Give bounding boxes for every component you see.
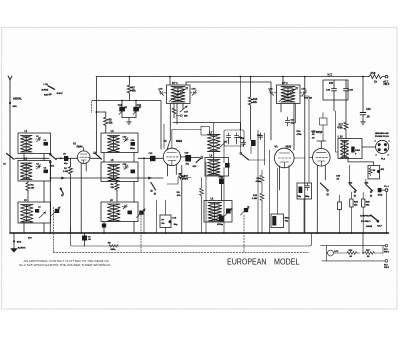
resistor R5 <box>109 245 118 247</box>
wire V2 top <box>172 130 201 149</box>
node wave o2 <box>50 94 51 95</box>
capacitor C24 trimmer <box>269 90 277 96</box>
node contact S13 <box>201 157 203 159</box>
switch S4 lever <box>61 189 64 195</box>
node PL3 terminal <box>385 260 388 263</box>
trimmer C16a <box>122 205 127 210</box>
capacitor C28 <box>332 80 337 100</box>
capacitor C10 <box>121 101 123 118</box>
svg-text:S2-P: S2-P <box>377 226 382 228</box>
svg-text:2.2M: 2.2M <box>252 198 257 200</box>
node HT+ terminal <box>385 75 388 78</box>
node contact S23b <box>354 195 356 197</box>
ground C10C11 <box>126 122 131 124</box>
resistor R26 <box>347 252 360 255</box>
svg-text:IFT 2: IFT 2 <box>282 82 288 85</box>
trimmer arrow C9 <box>52 207 61 216</box>
resistor R18 <box>369 75 385 79</box>
box C32 grid cap <box>320 118 328 125</box>
box jack R19 <box>368 165 380 179</box>
wire L6 bottom <box>104 222 134 234</box>
svg-text:250p: 250p <box>130 148 135 150</box>
coil L7 <box>208 135 221 152</box>
wire S23 down <box>340 192 364 233</box>
wire pot top <box>277 168 279 214</box>
coil L9 <box>208 203 222 222</box>
switch lever S23 <box>350 185 357 191</box>
wire line C to V3 grid <box>186 82 271 140</box>
node contact S20a <box>327 190 329 192</box>
wire IFT2 sec right <box>300 96 309 183</box>
wire AGC horizontal mid <box>173 122 241 124</box>
wire IFT2 feed <box>282 77 284 85</box>
svg-text:PIN 4: PIN 4 <box>384 83 390 86</box>
resistor R19 <box>369 167 372 176</box>
capacitor C4 <box>44 170 49 174</box>
node grid dot <box>60 157 62 159</box>
resistor R14 <box>260 170 264 188</box>
wire L2 to L3 stub <box>43 181 45 202</box>
coil L2 <box>21 163 33 180</box>
capacitor C9a <box>102 224 106 228</box>
svg-text:AERIAL: AERIAL <box>13 98 22 101</box>
lever earphone <box>371 215 378 221</box>
node dot AF box <box>169 220 172 223</box>
box osc pad <box>201 127 209 136</box>
wire L4 L5 stubs <box>104 153 134 163</box>
box volume pot <box>271 214 284 228</box>
svg-text:1M: 1M <box>31 187 34 189</box>
node mid dot <box>362 252 364 254</box>
ground EARTH <box>11 249 17 253</box>
capacitor C15v variable <box>139 211 143 215</box>
wire chassis rail <box>10 232 389 234</box>
resistor R13 <box>248 77 252 140</box>
wire V1 cathode down <box>84 233 86 246</box>
wire L5 L6 stub <box>133 182 135 203</box>
transformer L10 box <box>338 139 362 159</box>
resistor R1 <box>69 158 73 233</box>
node contact S16 <box>240 153 242 155</box>
capacitor C25 <box>225 163 230 168</box>
wire R2 down <box>27 192 29 202</box>
svg-text:6BE6: 6BE6 <box>176 140 183 143</box>
box L5 unit <box>101 162 138 182</box>
box L8 unit <box>205 158 229 177</box>
switch lever S20 <box>320 183 327 189</box>
svg-text:6BA6: 6BA6 <box>77 146 84 149</box>
wire x269 vertical <box>269 150 271 233</box>
capacitor C29 <box>344 80 349 100</box>
node dot IFT2 feed <box>282 76 284 78</box>
wire R4 down <box>116 191 118 202</box>
coil IFT2 <box>281 87 295 103</box>
wire C27 drop <box>221 176 223 201</box>
transformer IFT2 box <box>277 85 301 104</box>
wire x264 vertical <box>264 133 266 165</box>
wire IFT1 bottom legs <box>167 104 183 151</box>
trimmer C1 <box>36 137 42 142</box>
svg-text:PHONE PLUG: PHONE PLUG <box>375 136 389 138</box>
capacitor C31 <box>360 113 366 115</box>
trimmer arrow IFT2 <box>279 88 298 102</box>
node dot R13 <box>250 76 252 78</box>
transformer IFT1 box <box>167 85 191 104</box>
svg-text:BATT: BATT <box>44 94 50 97</box>
trimmer arrow C22v <box>241 207 250 216</box>
box tone network <box>297 183 312 199</box>
svg-text:560k: 560k <box>111 249 117 251</box>
switch lever S1a <box>7 154 15 160</box>
node earphone blob <box>377 220 380 223</box>
svg-text:6BQ5: 6BQ5 <box>316 131 323 134</box>
node contact S2 <box>94 152 96 154</box>
wire lamp links <box>327 246 348 261</box>
capacitor C16b black <box>251 140 256 146</box>
svg-text:MODEL: MODEL <box>274 258 300 267</box>
svg-text:S1-2,S25 WHICH EARTHS THE: S1-2,S25 WHICH EARTHS THE UNUSED TUNED W… <box>19 263 111 267</box>
wire V2 anode <box>181 156 200 159</box>
resistor R17 <box>344 122 348 139</box>
node contact S5b <box>154 193 156 195</box>
switch lever S13 <box>196 158 201 162</box>
trimmer arrow C15v <box>137 209 146 218</box>
node contact S24b <box>370 195 372 197</box>
capacitor C15b <box>241 140 245 146</box>
svg-text:470k: 470k <box>256 180 262 183</box>
node dot grid2 <box>143 157 145 159</box>
wire HT left drop <box>96 77 98 153</box>
wire x144 down <box>143 158 145 233</box>
svg-text:22k: 22k <box>253 101 258 104</box>
capacitor C5 <box>64 156 68 161</box>
wire grid2 line right <box>138 157 150 159</box>
capacitor C12 <box>150 156 156 161</box>
wire x164 vertical <box>163 124 165 149</box>
svg-text:BASE: BASE <box>366 225 372 228</box>
capacitor C11 <box>135 101 137 118</box>
switch wave lever <box>48 86 55 90</box>
resistor R6 below IFT1 <box>172 108 176 118</box>
connector PL2 circle <box>376 140 389 153</box>
wire x258 vertical <box>257 130 259 233</box>
box L2 unit <box>18 161 51 182</box>
wire gang dash C9 <box>53 207 55 252</box>
capacitor C17a <box>128 211 133 215</box>
wire grid line from switch <box>15 157 49 159</box>
svg-text:EARTH: EARTH <box>18 247 26 250</box>
node PL2 pin1 terminal <box>385 244 388 247</box>
svg-text:PL 1: PL 1 <box>384 186 389 188</box>
wire V4 grid link <box>309 156 313 158</box>
svg-text:H.T.: H.T. <box>328 72 333 76</box>
capacitor C29a padder <box>226 209 231 214</box>
svg-text:470p: 470p <box>378 194 383 197</box>
switch S5 mid <box>151 183 156 191</box>
svg-text:IFT 1: IFT 1 <box>172 82 178 85</box>
trimmer arrow C29a <box>225 209 233 217</box>
wire C29 drop to R17 <box>345 100 347 122</box>
svg-text:4700p: 4700p <box>217 223 224 226</box>
coil L10 <box>341 141 349 158</box>
node contact S4a <box>60 188 62 190</box>
wire L3 bottom stubs <box>24 223 44 233</box>
trimmer C3 <box>36 165 42 170</box>
wire lamp strip bottom <box>322 260 385 262</box>
resistor R2 below L2 <box>26 181 30 192</box>
antenna arrow <box>8 76 12 80</box>
node wave o1 <box>47 89 48 90</box>
svg-text:2.2M: 2.2M <box>63 171 68 173</box>
svg-text:27k: 27k <box>329 82 334 85</box>
svg-text:1000: 1000 <box>355 150 361 152</box>
svg-text:S.W-P: S.W-P <box>57 93 64 95</box>
wire L10 to PL2 <box>362 146 376 148</box>
wire R27 up <box>382 246 384 253</box>
wire C32 stub <box>322 113 324 142</box>
capacitor C23 osc <box>234 133 238 140</box>
ground C31 <box>360 122 365 124</box>
node PL1 terminal <box>385 189 388 192</box>
node dot x304 <box>304 76 306 78</box>
resistor R24 box <box>350 199 353 207</box>
wire IFT2 right drop <box>304 77 306 233</box>
wire osc top joins <box>214 140 237 160</box>
svg-text:R18: R18 <box>371 71 376 75</box>
wire osc cap drop <box>240 123 242 131</box>
svg-text:150p: 150p <box>305 196 310 198</box>
capacitor C7 <box>35 209 39 213</box>
node contact S1b <box>49 153 51 155</box>
svg-text:MR: MR <box>184 116 188 118</box>
tube V1 <box>77 151 90 164</box>
node strip top left <box>320 245 323 247</box>
node gram terminal <box>180 115 182 117</box>
wire earth drop <box>13 233 15 248</box>
coil IFT1 <box>171 87 185 103</box>
wire L1 to L2 stubs <box>24 154 44 161</box>
wire L4 feed <box>97 112 106 133</box>
wire det out <box>249 159 265 161</box>
wire C10 C11 join <box>122 118 136 122</box>
capacitor C19 <box>185 155 191 162</box>
wire HT drop C31 <box>362 77 364 122</box>
capacitor C9 variable <box>55 209 59 213</box>
node dot L4 feed <box>96 111 98 113</box>
wire V2 pins <box>168 164 177 176</box>
wire C28 drop <box>333 100 335 111</box>
wire AGC line <box>51 177 164 179</box>
switch lever S1b <box>50 155 56 160</box>
wire L1 return <box>49 163 51 233</box>
node contact S5a <box>151 190 153 192</box>
capacitor C21 <box>285 117 289 126</box>
wire C16b stub <box>250 146 252 153</box>
capacitor C18c <box>258 133 262 139</box>
node SK1 <box>9 102 11 104</box>
wire osc column verticals <box>206 140 224 233</box>
coil L3 <box>21 205 34 223</box>
capacitor C22 osc <box>226 133 230 140</box>
tube V2 <box>163 148 180 165</box>
box L6 unit <box>101 202 138 222</box>
node rail dots <box>49 232 387 234</box>
node contact S23a <box>354 191 356 193</box>
box L9 unit <box>204 201 232 223</box>
svg-text:470k: 470k <box>297 133 303 136</box>
capacitor C22v variable <box>244 208 248 212</box>
wire return bus <box>70 227 311 246</box>
wire V4 top <box>317 141 326 149</box>
svg-text:PIN 1: PIN 1 <box>384 252 390 254</box>
box AF unit <box>160 215 171 228</box>
svg-text:EUROPEAN: EUROPEAN <box>227 258 267 267</box>
wire x97 down from screen <box>96 152 98 154</box>
svg-text:C31: C31 <box>366 108 371 111</box>
svg-text:L 10: L 10 <box>338 136 343 139</box>
pin dots PL2 <box>378 143 381 146</box>
coil L6 <box>108 204 121 221</box>
box L3 unit <box>18 202 51 223</box>
resistor R7 <box>127 77 131 101</box>
coil L5 <box>108 165 120 182</box>
wire V1 pins <box>81 163 86 233</box>
coil L4 <box>108 136 120 153</box>
capacitor C30 pot <box>272 216 276 226</box>
wire V3 anode link <box>294 157 305 159</box>
trimmer arrow IFT1 <box>169 88 188 102</box>
node contact S1c <box>49 161 51 163</box>
wire V1 anode to L4 <box>90 157 101 159</box>
box L1 unit <box>18 133 51 154</box>
resistor R4 below L5 <box>115 182 119 192</box>
capacitor C28a 4700p <box>219 216 224 222</box>
trimmer C15 <box>123 165 128 170</box>
capacitor C41 <box>378 188 382 192</box>
node dot railB C11 <box>135 100 137 102</box>
capacitor C34 <box>305 183 309 190</box>
arrowhead AGC 2 <box>149 177 152 179</box>
svg-text:HEARING AID: HEARING AID <box>375 132 389 135</box>
svg-text:6BJ6: 6BJ6 <box>286 145 292 148</box>
coil L8 <box>208 160 221 176</box>
node dot AVC rail <box>240 76 242 78</box>
resistor R8 <box>167 176 191 184</box>
trimmer arrow C17 <box>180 106 187 112</box>
arrowhead AGC 1 <box>62 177 65 179</box>
capacitor C27 300p <box>219 179 224 185</box>
node dot IFT1 feed <box>169 76 171 78</box>
capacitor C2 <box>44 142 49 146</box>
wire lamp feed <box>362 233 364 253</box>
svg-text:470k: 470k <box>337 127 343 130</box>
svg-text:PIN 3: PIN 3 <box>384 267 390 269</box>
box L4 unit <box>101 133 138 153</box>
trimmer arrow C8 <box>39 212 46 218</box>
wire IFT1 sec down <box>176 104 178 125</box>
capacitor C16 trimmer <box>159 90 167 96</box>
wire C12 to V2 <box>156 157 164 159</box>
svg-text:EARPHON: EARPHON <box>360 214 371 217</box>
capacitor C6 <box>82 236 87 241</box>
wire L7 top <box>213 123 215 135</box>
trimmer C13 <box>123 138 128 143</box>
coil L1 <box>21 136 33 153</box>
wire osc AVC vertical <box>240 77 242 153</box>
resistor R25 box <box>362 199 365 207</box>
svg-text:C10: C10 <box>118 104 123 107</box>
resistor R27 <box>365 252 384 255</box>
wire HT rail top <box>96 76 369 78</box>
wire screen rail B <box>92 101 161 149</box>
wire gang dash C22 <box>243 215 245 252</box>
node contact S4b <box>62 195 64 197</box>
node SK2 <box>13 240 15 242</box>
tube V4 <box>313 149 331 167</box>
wire x156 vertical <box>156 200 158 233</box>
trimmer C20 <box>220 141 227 147</box>
node contact S20b <box>327 194 329 196</box>
svg-text:+H.T.: +H.T. <box>383 81 389 83</box>
box feedback network top right <box>323 80 348 100</box>
resistor R3 <box>104 117 108 126</box>
wire aerial line <box>9 80 11 233</box>
trimmer arrow C11 <box>133 107 141 115</box>
wire IFT2 right leg <box>294 104 296 123</box>
svg-text:68k: 68k <box>132 90 137 93</box>
resistor R11 <box>200 178 204 234</box>
resistor R10 <box>180 166 184 234</box>
node dot railB C10 <box>121 100 123 102</box>
wire lamp strip top <box>322 245 385 247</box>
capacitor C18 trimmer <box>190 90 197 96</box>
wire IFT1 feed <box>169 77 171 85</box>
trimmer arrow C10 <box>119 107 127 115</box>
wire gang dash C15 <box>140 212 142 252</box>
box osc trim unit <box>224 130 244 146</box>
wire S23 S24 up <box>350 165 366 185</box>
capacitor C40 <box>351 147 354 153</box>
wire tone box bottom <box>303 199 305 233</box>
tube V3 <box>275 148 295 168</box>
node dot x363 <box>362 76 364 78</box>
node dot R7 top <box>129 76 131 78</box>
capacitor C14 <box>131 142 136 146</box>
wire x335 vertical <box>336 111 339 152</box>
node contact S24a <box>370 191 372 193</box>
wire V4 pins <box>317 165 325 233</box>
wire grid to V1 <box>56 157 77 159</box>
wire AF box top <box>165 200 167 233</box>
switch lever S24 <box>366 185 373 191</box>
wire IFT2 bottom legs <box>281 104 294 151</box>
svg-text:PU RED 2: PU RED 2 <box>361 221 371 223</box>
resistor R15 <box>260 188 264 233</box>
wire C41 to PL1 <box>382 189 386 191</box>
wire PL1 down <box>386 192 388 234</box>
lamp LP1 <box>328 250 334 256</box>
capacitor C33 <box>299 187 303 194</box>
wire V1 top cap <box>83 148 85 151</box>
resistor R23 box <box>338 202 342 210</box>
switch lever S16 <box>242 154 249 160</box>
wire gang dash bus <box>54 251 310 253</box>
wire V3 pins <box>280 166 290 233</box>
switch lever S2 <box>95 153 101 159</box>
node jack contact <box>377 170 380 173</box>
node dot L6 bottom <box>103 225 105 227</box>
capacitor C15a <box>131 170 136 174</box>
